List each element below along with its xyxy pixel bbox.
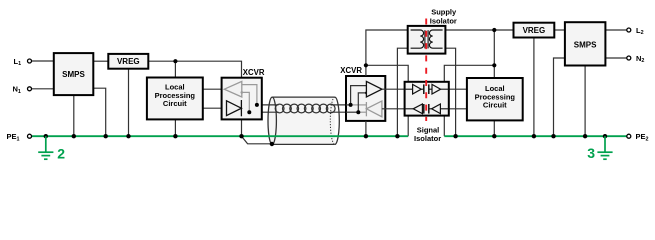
SMPS U1	[54, 53, 94, 95]
XCVR2 bus B inner segments	[346, 111, 358, 113]
wire supply isolator secondary bottom to PE rail	[445, 48, 455, 136]
svg-text:Circuit: Circuit	[483, 101, 507, 110]
node XCVR2 bus A junction	[349, 103, 353, 107]
cable shield drain wire to PE rail	[242, 136, 272, 144]
node VREG2 output junction	[492, 28, 496, 32]
node XCVR1 bottom / shield tap	[239, 134, 243, 138]
wire XCVR2 bottom to PE rail	[365, 121, 367, 136]
wire isolated supply rail: top of supply isolator primary to XCVR2 top	[366, 30, 408, 76]
wire bus A left segment (XCVR1 to cable)	[241, 104, 278, 106]
wire VREG1 bottom to PE rail	[128, 69, 130, 137]
node SMPS1 bottom	[72, 134, 76, 138]
svg-text:PE1: PE1	[7, 132, 20, 142]
terminal N2	[627, 56, 631, 60]
wire VREG1 output rail to XCVR1 top	[148, 61, 241, 77]
wire VREG2 bottom to PE rail	[533, 38, 535, 137]
node LPC2 bottom	[492, 134, 496, 138]
svg-text:VREG: VREG	[117, 57, 140, 66]
wire SMPS1 bottom to PE rail	[73, 95, 75, 136]
T1 primary winding	[411, 30, 424, 48]
cable shield cylinder	[272, 97, 335, 144]
node SMPS1 stub	[104, 134, 108, 138]
isolation barrier (red dashed line)	[425, 17, 427, 121]
node SMPS2 stub	[551, 134, 555, 138]
supply isolator T1	[408, 26, 446, 54]
wire bus A right segment (cable to XCVR2)	[331, 104, 351, 106]
node ground 3 tap	[603, 134, 607, 138]
svg-text:3: 3	[587, 145, 595, 161]
PE green rail right segment	[444, 135, 627, 137]
XCVR2 receiver input wires (black)	[351, 86, 367, 105]
wire XCVR2 receiver output to signal isolator	[382, 88, 413, 90]
node ground 2 tap	[44, 134, 48, 138]
XCVR2 bus A inner segments	[346, 104, 351, 106]
SMPS U7	[565, 22, 606, 65]
node isolated rail junction	[364, 63, 368, 67]
wire SMPS2 to L2	[605, 29, 626, 31]
signal isolator U4	[405, 82, 449, 116]
ground symbol 2	[38, 136, 53, 159]
node SMPS2 bottom	[583, 134, 587, 138]
node XCVR1 bus A junction	[255, 103, 259, 107]
terminal PE1	[28, 134, 32, 138]
XCVR1 driver buffer (black, pointing right)	[227, 101, 242, 116]
cable shield left ellipse	[268, 97, 276, 144]
svg-text:N2: N2	[636, 54, 644, 64]
wire bus B left segment (XCVR1 to cable)	[241, 111, 278, 113]
twisted pair conductors	[275, 104, 335, 113]
wire XCVR1 bottom to PE rail	[241, 119, 243, 136]
node XCVR2 bottom	[364, 134, 368, 138]
T1 secondary winding	[429, 30, 442, 48]
svg-text:Supply: Supply	[431, 8, 457, 17]
svg-text:Circuit: Circuit	[163, 99, 187, 108]
node XCVR2 bus B junction	[356, 110, 360, 114]
wire SMPS2 to N2	[605, 57, 626, 59]
wire LPC1 to XCVR1 driver input	[203, 107, 227, 109]
transceiver XCVR2	[346, 76, 385, 121]
wire VREG2 output down to right mid rail and LPC2 top	[493, 30, 495, 78]
VREG U2	[108, 54, 148, 69]
svg-text:L2: L2	[636, 26, 644, 36]
ground symbol 3	[597, 136, 612, 159]
node supply isolator primary return	[395, 134, 399, 138]
wire SMPS1 right stub to PE rail	[93, 88, 105, 136]
node shield connection	[270, 142, 274, 146]
wire SMPS2 bottom to PE rail	[584, 66, 586, 137]
terminal N1	[28, 87, 32, 91]
VREG U6	[514, 23, 555, 38]
wire LPC1 bottom to PE rail	[174, 119, 176, 136]
XCVR2 receiver buffer (black, pointing right)	[366, 81, 382, 97]
svg-text:SMPS: SMPS	[62, 70, 85, 79]
wire VREG2 to SMPS2	[554, 29, 565, 31]
T1 core	[424, 30, 426, 48]
XCVR1 driver output bar	[240, 100, 242, 116]
label Signal Isolator	[414, 126, 441, 144]
node LPC1 bottom	[173, 134, 177, 138]
cable shield right ellipse	[335, 97, 339, 144]
svg-text:XCVR: XCVR	[243, 68, 265, 77]
node VREG1 bottom	[126, 134, 130, 138]
wire signal isolator bottom stubs to PE rail	[407, 116, 409, 137]
node VREG2 bottom	[532, 134, 536, 138]
Local Processing Circuit U3	[147, 78, 203, 120]
wire SMPS1 to VREG1	[93, 60, 108, 62]
label Supply Isolator	[430, 8, 457, 26]
node supply isolator secondary return	[453, 134, 457, 138]
wire SMPS2 left stub to PE rail	[554, 58, 565, 136]
XCVR2 driver output bar (gray)	[365, 102, 367, 116]
wire LPC2 bottom to PE rail	[493, 120, 495, 136]
wire L1 to SMPS1	[32, 60, 54, 62]
XCVR1 receiver input wires (gray)	[242, 85, 257, 105]
terminal PE2	[627, 134, 631, 138]
signal isolator channel 2 (right to left)	[405, 108, 414, 110]
svg-text:Isolator: Isolator	[430, 17, 457, 26]
svg-text:Isolator: Isolator	[414, 134, 441, 143]
node supply tap LPC1	[173, 59, 177, 63]
svg-text:N1: N1	[13, 85, 21, 95]
node right mid rail junction	[492, 63, 496, 67]
svg-text:XCVR: XCVR	[340, 66, 362, 75]
svg-text:2: 2	[57, 145, 65, 161]
wire signal isolator to LPC2 (top row)	[441, 88, 467, 90]
svg-text:PE2: PE2	[636, 132, 649, 142]
wire supply isolator primary bottom to PE rail	[397, 48, 407, 136]
wire N1 to SMPS1	[32, 88, 54, 90]
svg-text:L1: L1	[14, 57, 22, 67]
wire LPC2 to signal isolator (bottom row)	[440, 108, 467, 110]
signal isolator channel 1 (left to right)	[405, 88, 413, 90]
wire signal isolator to XCVR2 driver input	[382, 108, 413, 110]
wire supply isolator secondary top to VREG2	[445, 29, 513, 31]
wire bus B right segment (cable to XCVR2)	[331, 111, 359, 113]
PE green rail left segment	[32, 135, 409, 137]
wire LPC1 to XCVR1 receiver output	[203, 88, 225, 90]
svg-text:VREG: VREG	[523, 26, 546, 35]
wire right mid rail to signal isolator right supply stub	[444, 65, 494, 82]
transceiver XCVR1	[222, 78, 262, 120]
terminal L1	[28, 59, 32, 63]
node XCVR1 bus B junction	[247, 110, 251, 114]
svg-text:SMPS: SMPS	[574, 41, 597, 50]
terminal L2	[627, 28, 631, 32]
wire supply tap to LPC1 top	[174, 61, 176, 77]
Local Processing Circuit U5	[467, 78, 523, 120]
wire isolated mid rail to signal isolator left supply stub	[366, 65, 408, 82]
XCVR2 driver buffer (gray, pointing left)	[366, 101, 382, 117]
XCVR1 receiver buffer (gray, pointing left)	[224, 81, 242, 97]
